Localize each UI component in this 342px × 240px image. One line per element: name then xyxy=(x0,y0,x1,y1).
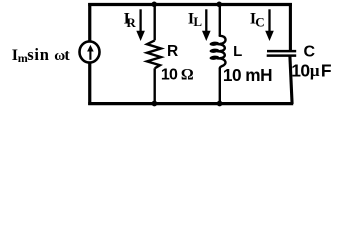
node junction dot R bottom xyxy=(152,101,158,107)
svg-text:μ: μ xyxy=(310,61,320,80)
current source arrow head xyxy=(87,45,94,52)
capacitor C bottom plate xyxy=(267,54,297,57)
arrow I_R head xyxy=(136,31,145,41)
inductor L left loop 3 xyxy=(209,55,219,60)
arrow I_L head xyxy=(202,31,211,41)
wire L branch upper xyxy=(219,6,221,37)
arrow I_C shaft xyxy=(268,9,270,32)
wire L branch lower xyxy=(219,68,221,102)
node junction dot L bottom xyxy=(217,101,223,107)
current source circle xyxy=(80,41,100,62)
wire left upper xyxy=(88,3,91,42)
wire right upper xyxy=(289,3,292,50)
svg-text:10: 10 xyxy=(291,60,310,80)
svg-text:sin: sin xyxy=(27,45,50,64)
svg-text:C: C xyxy=(255,14,264,29)
svg-text:10: 10 xyxy=(161,67,178,84)
inductor L coil spine xyxy=(218,36,226,69)
wire bottom horizontal xyxy=(88,102,293,105)
svg-text:R: R xyxy=(126,15,136,30)
inductor L left loop 2 xyxy=(209,48,219,53)
svg-text:Ω: Ω xyxy=(181,66,194,83)
svg-text:t: t xyxy=(64,47,70,64)
resistor R zigzag xyxy=(147,40,161,68)
svg-text:L: L xyxy=(193,14,202,29)
arrow I_L shaft xyxy=(205,9,207,32)
arrow I_C head xyxy=(265,31,274,41)
wire left lower xyxy=(88,63,91,106)
node junction dot L top xyxy=(216,2,222,8)
svg-text:C: C xyxy=(304,43,316,60)
node junction dot R top xyxy=(151,2,157,8)
wire top horizontal xyxy=(88,3,292,6)
svg-text:L: L xyxy=(233,43,242,60)
svg-text:10 mH: 10 mH xyxy=(223,65,272,85)
capacitor C top plate xyxy=(267,50,296,53)
inductor L left loop 1 xyxy=(209,41,219,46)
arrow I_R shaft xyxy=(139,9,141,32)
svg-text:F: F xyxy=(321,60,332,80)
svg-text:R: R xyxy=(167,43,178,60)
wire right lower xyxy=(290,56,292,104)
wire R branch lower xyxy=(153,68,155,102)
current source arrow shaft xyxy=(89,51,91,60)
wire R branch upper xyxy=(153,6,155,40)
